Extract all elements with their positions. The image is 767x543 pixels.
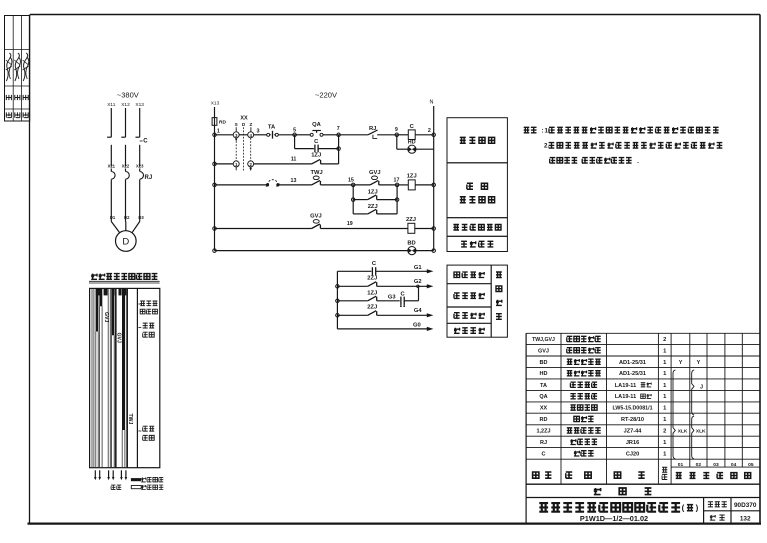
svg-text:GVJ: GVJ xyxy=(103,312,109,322)
terminal labels X11 X12 X13 xyxy=(107,102,144,108)
svg-text:G2: G2 xyxy=(414,279,422,285)
wire node9 branch to lamp HD xyxy=(397,135,408,149)
svg-text:BD: BD xyxy=(407,240,415,246)
svg-text:D3: D3 xyxy=(138,215,144,220)
table column names xyxy=(567,336,601,456)
svg-text:CJ20: CJ20 xyxy=(626,451,639,457)
thermal contact RJ (NC) xyxy=(368,126,397,138)
node 5 xyxy=(293,128,297,137)
function box highest level alarm xyxy=(447,218,507,237)
gauge legend open contact xyxy=(111,485,163,490)
svg-text:03: 03 xyxy=(713,462,719,468)
svg-text:Y: Y xyxy=(697,360,701,366)
node labels X21 X22 X23 xyxy=(108,163,145,168)
stop button TA xyxy=(267,124,279,138)
svg-text:02: 02 xyxy=(696,462,702,468)
wire coil 1ZJ to bus N xyxy=(415,183,435,187)
svg-text:GVJ: GVJ xyxy=(115,333,121,343)
node row3 on bus X13 xyxy=(213,183,217,187)
contact 2ZJ (parallel) xyxy=(353,204,397,214)
svg-text:X21: X21 xyxy=(108,163,116,168)
wire row4 to coil 2ZJ, label 19 xyxy=(320,221,408,228)
wire row5 (power monitor) xyxy=(215,250,408,252)
svg-text:2: 2 xyxy=(663,337,666,343)
lamp HD (red signal lamp) xyxy=(408,139,416,153)
contact 1ZJ (accident signal) xyxy=(337,290,399,301)
bus X13 (left control bus) xyxy=(211,101,220,251)
svg-text:RJ: RJ xyxy=(540,440,547,446)
bus N (right control bus) xyxy=(430,100,434,251)
svg-text:GVJ: GVJ xyxy=(538,348,549,354)
svg-text:Z: Z xyxy=(249,122,252,127)
contact 1ZJ (parallel seal-in) xyxy=(353,189,397,199)
svg-text:LA19-11: LA19-11 xyxy=(615,394,636,400)
svg-text:LW5-15.D0081/1: LW5-15.D0081/1 xyxy=(612,406,652,412)
svg-text:XX: XX xyxy=(240,116,248,122)
gauge level labels xyxy=(138,301,157,440)
title block signature strip xyxy=(5,16,30,122)
contact 2ZJ (accident audible) xyxy=(337,305,426,316)
svg-text:(: ( xyxy=(682,504,685,513)
svg-text:~220V: ~220V xyxy=(315,91,337,100)
svg-text:JZ7-44: JZ7-44 xyxy=(624,429,643,435)
svg-text:9: 9 xyxy=(395,127,398,133)
wire row2 left xyxy=(215,163,234,165)
svg-text:D2: D2 xyxy=(124,215,130,220)
contact GVJ (alarm, NO) xyxy=(310,214,322,229)
function box accident sound xyxy=(454,313,460,319)
table brace column 01 with XLK xyxy=(673,370,688,459)
svg-text:JR16: JR16 xyxy=(626,440,639,446)
wire node17 to coil 1ZJ xyxy=(397,184,408,186)
function box level auto control xyxy=(447,163,507,218)
svg-text:90D370: 90D370 xyxy=(734,502,757,509)
selector switch XX xyxy=(233,116,254,171)
svg-text:17: 17 xyxy=(394,178,400,184)
svg-text:D1: D1 xyxy=(110,215,116,220)
function box manual control xyxy=(447,118,507,163)
wire G0 (signal power) xyxy=(337,328,426,330)
contact 2ZJ (accident lamp signal) xyxy=(337,276,426,288)
svg-text:HD: HD xyxy=(540,371,548,377)
wire row1 left segment xyxy=(215,134,234,136)
float switch level gauge title xyxy=(89,274,160,283)
svg-text:1ZJ: 1ZJ xyxy=(311,153,321,159)
svg-text:RD: RD xyxy=(540,417,548,423)
start button QA xyxy=(310,122,323,136)
svg-text:X23: X23 xyxy=(136,163,144,168)
svg-text:RJ: RJ xyxy=(145,175,153,181)
svg-text:X13: X13 xyxy=(211,101,220,107)
svg-text:2ZJ: 2ZJ xyxy=(406,217,416,223)
svg-text:2: 2 xyxy=(428,128,431,134)
svg-text:19: 19 xyxy=(347,221,353,227)
function box power supervision xyxy=(447,236,507,251)
svg-text:11: 11 xyxy=(291,157,297,163)
table column models xyxy=(612,360,652,458)
svg-text:.: . xyxy=(717,127,719,134)
notes paragraph xyxy=(524,127,723,165)
signal output G2 xyxy=(414,279,434,288)
lamp BD (white signal lamp) xyxy=(407,240,416,254)
svg-text:G1: G1 xyxy=(414,265,423,271)
wire G3 riser to G2 xyxy=(418,286,420,301)
svg-text:1ZJ: 1ZJ xyxy=(367,290,377,296)
svg-text:AD1-25/31: AD1-25/31 xyxy=(619,360,646,366)
wire QA to node 7 xyxy=(323,134,339,136)
wire node7 to RJ contact xyxy=(339,134,368,136)
wire lamp HD to bus N xyxy=(416,148,434,150)
motor D xyxy=(116,231,137,252)
float gauge switch bars xyxy=(92,288,128,467)
svg-text:P1W1D—1/2—01.02: P1W1D—1/2—01.02 xyxy=(580,514,648,523)
svg-text:QA: QA xyxy=(312,122,322,128)
node row2 on bus X13 xyxy=(213,162,217,166)
table header install columns 01-05 xyxy=(678,462,754,468)
svg-text:LA19-11: LA19-11 xyxy=(615,383,636,389)
svg-text:Y: Y xyxy=(679,360,683,366)
svg-text:XLK: XLK xyxy=(678,428,688,434)
node row5 on bus X13 xyxy=(213,249,217,253)
svg-text:TWJ: TWJ xyxy=(310,170,322,176)
node row4 on bus X13 xyxy=(213,227,217,231)
svg-text:C: C xyxy=(542,451,546,457)
contact C auxiliary (seal-in) xyxy=(295,135,341,164)
svg-text:XX: XX xyxy=(540,406,548,412)
svg-text:G4: G4 xyxy=(414,308,423,314)
wire motor leads xyxy=(111,222,139,233)
svg-text:2: 2 xyxy=(663,429,666,435)
node 1 xyxy=(213,129,220,137)
node 15 xyxy=(348,178,355,187)
motor lead labels D1 D2 D3 xyxy=(110,215,144,220)
wire node15 to GVJ xyxy=(353,184,370,186)
function box signal power xyxy=(454,328,460,334)
svg-text:D: D xyxy=(122,237,129,248)
contact C (accident blocking) xyxy=(400,292,419,307)
wire coil C to bus N, node 2 xyxy=(415,128,435,136)
wire parallel branch risers xyxy=(351,185,398,214)
svg-text:GVJ: GVJ xyxy=(310,214,322,220)
contactor coil C xyxy=(408,124,415,139)
table install marks Y Y xyxy=(679,360,701,366)
signal output G1 xyxy=(414,265,434,273)
wire connector to TWJ, label 13 xyxy=(278,178,312,185)
svg-text:S: S xyxy=(235,122,238,127)
svg-text:01: 01 xyxy=(678,462,684,468)
title block atlas number cell xyxy=(704,498,760,524)
svg-text:TA: TA xyxy=(540,383,547,389)
node 9 xyxy=(395,127,399,137)
node 7 xyxy=(337,126,341,137)
svg-text:1: 1 xyxy=(217,129,220,135)
table label equipment list xyxy=(594,488,601,495)
svg-text:5: 5 xyxy=(293,128,296,134)
svg-text:04: 04 xyxy=(731,462,737,468)
svg-text:TWJ,GVJ: TWJ,GVJ xyxy=(532,337,555,343)
svg-text:HD: HD xyxy=(408,139,416,145)
wire row3 left xyxy=(215,184,267,186)
svg-text:AD1-25/31: AD1-25/31 xyxy=(619,371,646,377)
signal output G4 xyxy=(414,308,434,317)
function box running light xyxy=(447,265,507,337)
wire three-phase feeders xyxy=(111,108,139,137)
contact GVJ (level switch, NO) xyxy=(369,170,397,185)
node 17 xyxy=(394,178,400,187)
svg-text:05: 05 xyxy=(748,462,754,468)
wire row4 left xyxy=(215,228,312,230)
svg-text:7: 7 xyxy=(337,126,340,132)
table brace column 02 with J and XLK xyxy=(692,370,706,459)
svg-text:RT-28/10: RT-28/10 xyxy=(621,417,644,423)
wire lamp BD to bus N xyxy=(416,249,435,253)
title block page number cell xyxy=(710,515,751,522)
float gauge body xyxy=(90,288,160,467)
wire node9 to coil C xyxy=(397,134,409,136)
svg-text:132: 132 xyxy=(740,515,751,522)
svg-text:.: . xyxy=(637,158,639,165)
equipment table grid xyxy=(526,333,759,523)
relay coil 1ZJ xyxy=(407,173,417,190)
svg-text:2.: 2. xyxy=(544,143,549,150)
svg-text:15: 15 xyxy=(348,178,354,184)
svg-text::: : xyxy=(542,127,544,134)
svg-text:C: C xyxy=(143,139,148,145)
wire between selector contacts row1 xyxy=(239,128,267,135)
svg-text:G0: G0 xyxy=(413,322,421,328)
svg-text:BD: BD xyxy=(540,360,548,366)
svg-text:TWJ: TWJ xyxy=(127,414,133,425)
svg-text:2ZJ: 2ZJ xyxy=(367,276,377,282)
signal output G0 xyxy=(413,322,433,331)
svg-text:J: J xyxy=(700,385,703,391)
label remote signal (vertical) xyxy=(496,272,502,278)
svg-text:~380V: ~380V xyxy=(117,91,139,100)
connector plug symbol xyxy=(266,180,280,187)
contact C (running signal) xyxy=(337,261,426,275)
relay coil 2ZJ xyxy=(406,217,416,233)
wire row2 label 11 segment xyxy=(253,157,311,164)
svg-text:2ZJ: 2ZJ xyxy=(368,204,378,210)
fuse RD xyxy=(212,118,226,126)
svg-text:2ZJ: 2ZJ xyxy=(367,305,377,311)
svg-text:GVJ: GVJ xyxy=(369,170,381,176)
svg-text:X11: X11 xyxy=(107,102,116,108)
table header symbol/name/model/qty xyxy=(533,467,751,479)
svg-text:1,2ZJ: 1,2ZJ xyxy=(536,429,550,435)
svg-text:XLK: XLK xyxy=(696,428,706,434)
svg-text:3: 3 xyxy=(256,128,259,134)
svg-text:TA: TA xyxy=(268,124,276,130)
svg-text:): ) xyxy=(696,504,699,513)
svg-text:X12: X12 xyxy=(121,102,130,108)
thermal relay RJ heater elements xyxy=(111,169,152,222)
svg-text:RD: RD xyxy=(219,120,226,126)
gauge legend closed contact xyxy=(131,477,163,482)
wire TA to node 5 xyxy=(278,134,294,136)
svg-text:QA: QA xyxy=(539,394,547,400)
svg-text:G3: G3 xyxy=(388,294,397,300)
gauge falling arrows xyxy=(94,470,127,480)
drawing title xyxy=(539,503,698,523)
wire node5 to QA xyxy=(295,134,311,136)
wire coil 2ZJ to bus N xyxy=(415,227,436,231)
bus signal common xyxy=(336,271,340,329)
svg-text:1ZJ: 1ZJ xyxy=(368,189,378,195)
contact TWJ (level switch, NO) xyxy=(310,170,353,185)
table column quantities xyxy=(663,337,667,457)
svg-text:X13: X13 xyxy=(135,102,144,108)
svg-text:N: N xyxy=(430,100,434,106)
svg-text:13: 13 xyxy=(291,178,297,184)
function box accident light xyxy=(454,293,460,299)
contact 1ZJ (seal-in, NO) xyxy=(311,153,338,164)
table column symbols xyxy=(532,337,555,457)
svg-text:X22: X22 xyxy=(122,163,130,168)
contactor C main contacts xyxy=(107,137,148,166)
svg-text:1ZJ: 1ZJ xyxy=(407,173,417,179)
